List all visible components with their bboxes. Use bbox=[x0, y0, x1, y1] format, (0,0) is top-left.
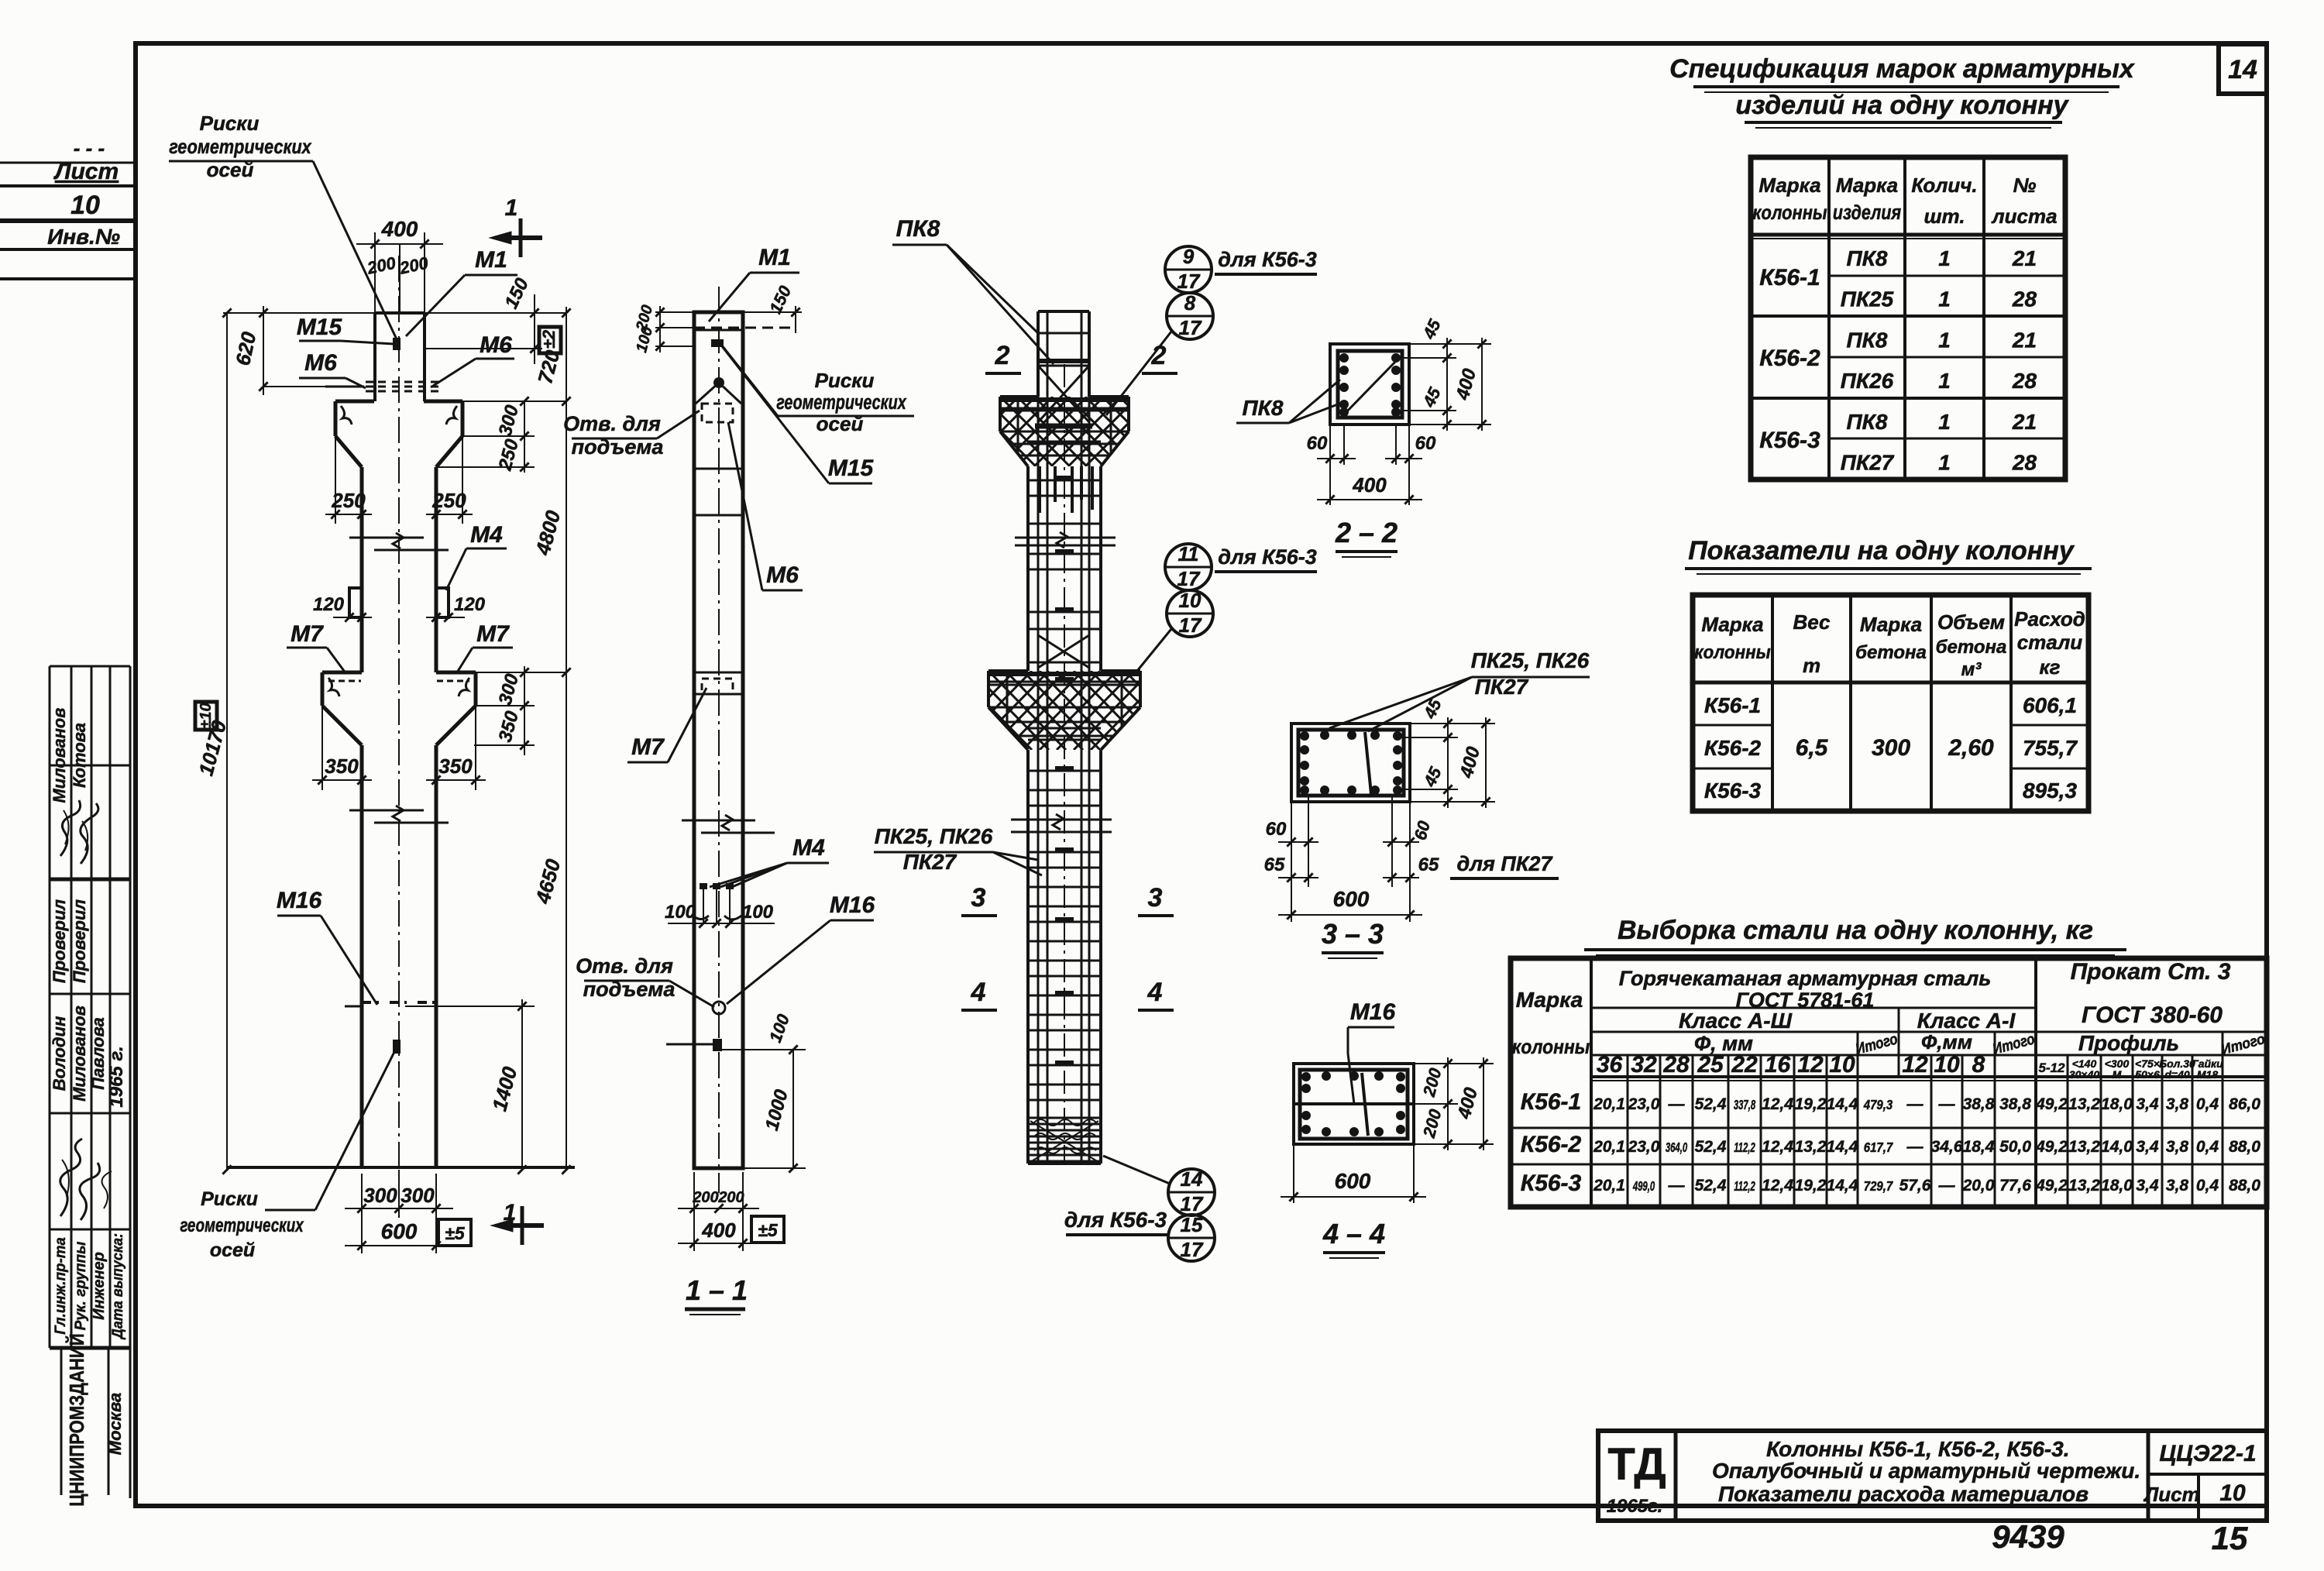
section 3-3 dim 45 top bbox=[1410, 723, 1458, 724]
svg-text:3,8: 3,8 bbox=[2166, 1138, 2189, 1156]
svg-text:М7: М7 bbox=[290, 621, 324, 647]
svg-text:14: 14 bbox=[2228, 55, 2257, 84]
svg-text:ПК26: ПК26 bbox=[1841, 369, 1894, 393]
svg-text:Москва: Москва bbox=[105, 1393, 125, 1455]
svg-text:20,1: 20,1 bbox=[1593, 1138, 1625, 1156]
svg-text:2,60: 2,60 bbox=[1948, 735, 1994, 761]
section 2-2 bar dots bbox=[1339, 353, 1349, 363]
dim 100 drawing2 bottom bbox=[722, 1049, 806, 1050]
svg-text:14,4: 14,4 bbox=[1827, 1177, 1858, 1195]
svg-text:М6: М6 bbox=[480, 332, 512, 358]
drawing3 centerline bbox=[1064, 364, 1065, 1164]
svg-text:300: 300 bbox=[1872, 735, 1910, 761]
svg-text:3,4: 3,4 bbox=[2136, 1177, 2159, 1195]
svg-text:±5: ±5 bbox=[758, 1220, 779, 1240]
drawing1 geometric axis dashes bbox=[325, 386, 364, 388]
svg-text:50×6: 50×6 bbox=[2135, 1068, 2160, 1081]
svg-text:Риски: Риски bbox=[815, 369, 875, 392]
section 2-2 dim 400 right bbox=[1409, 343, 1491, 345]
drawing3 neck X brace bbox=[1038, 366, 1089, 422]
section 4-4 dims 200 200 right bbox=[1414, 1063, 1458, 1064]
svg-text:ПК8: ПК8 bbox=[1847, 410, 1888, 434]
drawing1 top neck outline bbox=[375, 311, 425, 315]
svg-text:Расход: Расход bbox=[2014, 607, 2085, 631]
svg-text:Класс А-Ш: Класс А-Ш bbox=[1679, 1009, 1793, 1033]
svg-text:4: 4 bbox=[971, 978, 986, 1007]
svg-text:8: 8 bbox=[1972, 1052, 1985, 1078]
svg-text:49,2: 49,2 bbox=[2035, 1095, 2068, 1113]
table 1 specification grid bbox=[1751, 157, 2065, 480]
svg-text:32: 32 bbox=[1631, 1052, 1657, 1078]
svg-text:3,8: 3,8 bbox=[2166, 1177, 2189, 1195]
svg-text:Павлова: Павлова bbox=[88, 1017, 108, 1089]
svg-text:400: 400 bbox=[1352, 473, 1387, 497]
svg-text:1: 1 bbox=[1938, 328, 1951, 352]
svg-text:М6: М6 bbox=[766, 562, 799, 588]
svg-text:ПК25, ПК26: ПК25, ПК26 bbox=[1471, 648, 1590, 672]
svg-text:400: 400 bbox=[381, 217, 418, 241]
svg-text:364,0: 364,0 bbox=[1666, 1140, 1688, 1155]
svg-text:36: 36 bbox=[1597, 1052, 1623, 1078]
svg-text:112,2: 112,2 bbox=[1734, 1140, 1755, 1155]
svg-text:К56-3: К56-3 bbox=[1704, 779, 1762, 803]
drawing2 column outline bbox=[694, 312, 743, 1168]
svg-text:77,6: 77,6 bbox=[1999, 1177, 2031, 1195]
svg-text:—: — bbox=[1906, 1095, 1924, 1113]
dim 600 bottom bbox=[361, 1218, 363, 1253]
svg-text:стали: стали bbox=[2017, 631, 2083, 654]
svg-text:4: 4 bbox=[1147, 978, 1163, 1007]
svg-text:—: — bbox=[1668, 1177, 1686, 1195]
dim 150 right of head bbox=[425, 312, 542, 314]
svg-text:Лист: Лист bbox=[53, 159, 119, 184]
svg-text:листа: листа bbox=[1990, 205, 2057, 228]
section 3-3 dim 600 bottom bbox=[1291, 887, 1292, 922]
svg-text:8: 8 bbox=[1184, 291, 1196, 315]
svg-text:Марка: Марка bbox=[1516, 988, 1583, 1012]
svg-text:К56-1: К56-1 bbox=[1704, 693, 1761, 717]
ref circle 8-17 bbox=[1167, 293, 1213, 339]
svg-text:52,4: 52,4 bbox=[1695, 1177, 1727, 1195]
svg-text:17: 17 bbox=[1181, 1192, 1204, 1215]
svg-text:М: М bbox=[2113, 1068, 2122, 1081]
drawing2 riska mark bottom (filled) bbox=[713, 1039, 722, 1051]
svg-text:К56-1: К56-1 bbox=[1521, 1089, 1582, 1115]
drawing2 M4 tie marks bbox=[700, 883, 707, 889]
svg-text:1: 1 bbox=[1938, 451, 1951, 475]
drawing3 bottom dense mesh bbox=[1028, 1117, 1101, 1119]
dim 400 drawing2 bottom bbox=[693, 1216, 695, 1251]
svg-text:20,1: 20,1 bbox=[1593, 1177, 1625, 1195]
drawing1 bottom riska mark (filled) bbox=[393, 1040, 401, 1054]
svg-text:28: 28 bbox=[2012, 451, 2037, 475]
svg-text:2 – 2: 2 – 2 bbox=[1335, 517, 1397, 548]
svg-text:30×40: 30×40 bbox=[2069, 1068, 2100, 1081]
drawing2 M16 circle mark bbox=[713, 1002, 725, 1014]
svg-text:12,4: 12,4 bbox=[1762, 1138, 1793, 1156]
section 2-2 outer square bbox=[1330, 344, 1409, 425]
svg-text:изделий на одну колонну: изделий на одну колонну bbox=[1735, 91, 2069, 120]
svg-text:600: 600 bbox=[1333, 887, 1370, 911]
stamp signatures scrawl bbox=[60, 800, 81, 856]
drawing2 lower lifting hole dashed bbox=[702, 679, 733, 694]
section 2-2 dim 45 bottom bbox=[1402, 410, 1456, 411]
svg-text:12: 12 bbox=[1797, 1052, 1824, 1078]
svg-text:—: — bbox=[1906, 1138, 1924, 1156]
dim 100 200 drawing2 top left bbox=[655, 311, 694, 313]
svg-text:0,4: 0,4 bbox=[2196, 1095, 2219, 1113]
svg-text:606,1: 606,1 bbox=[2023, 693, 2077, 717]
svg-text:88,0: 88,0 bbox=[2229, 1138, 2260, 1156]
svg-text:300: 300 bbox=[401, 1184, 435, 1207]
svg-text:88,0: 88,0 bbox=[2229, 1177, 2260, 1195]
svg-text:Отв. для: Отв. для bbox=[563, 412, 661, 435]
svg-text:200: 200 bbox=[717, 1189, 744, 1206]
svg-text:Ф,мм: Ф,мм bbox=[1921, 1030, 1972, 1054]
svg-text:12,4: 12,4 bbox=[1762, 1177, 1793, 1195]
svg-text:К56-2: К56-2 bbox=[1759, 345, 1820, 371]
svg-text:Горячекатаная арматурная ста: Горячекатаная арматурная сталь bbox=[1619, 967, 1992, 990]
svg-text:337,8: 337,8 bbox=[1734, 1097, 1756, 1112]
svg-text:М18: М18 bbox=[2197, 1068, 2218, 1081]
svg-text:Показатели расхода материало: Показатели расхода материалов bbox=[1718, 1482, 2089, 1506]
svg-text:Инв.№: Инв.№ bbox=[47, 225, 120, 249]
svg-text:осей: осей bbox=[210, 1239, 255, 1261]
dim 1400 bottom bbox=[405, 1006, 535, 1007]
dim 350 pair lower console bbox=[321, 706, 323, 790]
svg-text:1: 1 bbox=[504, 1200, 517, 1226]
drawing2 riska mark top (filled) bbox=[711, 339, 724, 347]
section 2-2 stirrup bbox=[1338, 351, 1402, 418]
drawing3 reinforcement column outline bbox=[1038, 310, 1089, 313]
section 3-3 bar dots bbox=[1300, 731, 1309, 741]
svg-text:21: 21 bbox=[2012, 328, 2037, 352]
svg-text:18,4: 18,4 bbox=[1963, 1138, 1995, 1156]
svg-text:Дата выпуска:: Дата выпуска: bbox=[109, 1233, 126, 1340]
svg-text:10: 10 bbox=[2219, 1480, 2246, 1506]
svg-text:17: 17 bbox=[1179, 316, 1202, 339]
left stamp block grid bbox=[49, 666, 51, 1348]
drawing3 neck tie thick bbox=[1035, 424, 1092, 429]
drawing1 bottom riska dashes M16 bbox=[362, 1001, 379, 1004]
svg-text:Риски: Риски bbox=[201, 1188, 258, 1210]
svg-text:—: — bbox=[1938, 1177, 1956, 1195]
table 3 steel selection grid bbox=[1511, 958, 2267, 1207]
drawing2 riska dash line top bbox=[694, 327, 796, 329]
svg-text:ГОСТ 380-60: ГОСТ 380-60 bbox=[2082, 1002, 2223, 1028]
svg-text:М7: М7 bbox=[631, 734, 665, 760]
dim 300 350 right lower console bbox=[476, 672, 566, 673]
stamp signatures scrawl lower bbox=[60, 1139, 82, 1216]
section 4-4 middle rail bbox=[1294, 1102, 1414, 1105]
section 3-3 bent bar bbox=[1365, 732, 1371, 794]
svg-text:Марка: Марка bbox=[1701, 613, 1763, 636]
svg-text:86,0: 86,0 bbox=[2229, 1095, 2260, 1113]
svg-text:12,4: 12,4 bbox=[1762, 1095, 1793, 1113]
svg-text:Объем: Объем bbox=[1937, 610, 2005, 634]
stamp signatures column 1 bbox=[50, 708, 69, 803]
svg-text:1: 1 bbox=[1938, 246, 1951, 270]
svg-text:38,8: 38,8 bbox=[1963, 1095, 1995, 1113]
section 4-4 bar dots bbox=[1301, 1072, 1311, 1081]
drawing1 bottom edge bbox=[227, 1166, 575, 1169]
svg-text:м³: м³ bbox=[1961, 659, 1982, 680]
drawing3 tie hooks bbox=[1055, 476, 1074, 481]
section arrow 1 bottom bbox=[521, 1206, 524, 1245]
svg-text:колонны: колонны bbox=[1694, 641, 1771, 662]
svg-text:729,7: 729,7 bbox=[1864, 1178, 1893, 1195]
drawing3 console1 top chord thick bbox=[1000, 397, 1129, 402]
dim 300 console right bbox=[462, 435, 535, 437]
svg-text:112,2: 112,2 bbox=[1734, 1178, 1755, 1194]
svg-text:М16: М16 bbox=[830, 892, 875, 918]
drawing1 upper console corner curls bbox=[341, 406, 352, 425]
svg-text:ПК27: ПК27 bbox=[1475, 675, 1529, 699]
section 2-2 dim 45 top bbox=[1409, 343, 1456, 345]
svg-text:52,4: 52,4 bbox=[1695, 1095, 1727, 1113]
svg-text:34,6: 34,6 bbox=[1931, 1138, 1963, 1156]
table 2 indicators grid bbox=[1693, 595, 2089, 811]
svg-text:1965г.: 1965г. bbox=[1607, 1496, 1663, 1517]
svg-text:120: 120 bbox=[313, 594, 345, 615]
svg-text:Проверил: Проверил bbox=[50, 899, 69, 984]
svg-text:Профиль: Профиль bbox=[2078, 1031, 2179, 1055]
svg-text:14: 14 bbox=[1181, 1167, 1203, 1191]
drawing2 centerline bbox=[718, 287, 720, 1193]
section 4-4 dim 600 bottom bbox=[1293, 1144, 1294, 1203]
svg-text:28: 28 bbox=[2012, 287, 2037, 311]
sheet number box 14 bbox=[2219, 44, 2267, 94]
svg-text:ЦЦЭ22-1: ЦЦЭ22-1 bbox=[2159, 1441, 2256, 1466]
svg-text:Инженер: Инженер bbox=[91, 1252, 108, 1320]
svg-text:20,0: 20,0 bbox=[1962, 1177, 1995, 1195]
svg-text:Класс А-I: Класс А-I bbox=[1917, 1009, 2016, 1033]
dim 1000 drawing2 bottom bbox=[792, 1050, 794, 1168]
svg-text:19,2: 19,2 bbox=[1795, 1177, 1827, 1195]
section 4-4 outer rect bbox=[1294, 1064, 1414, 1144]
svg-text:d=40: d=40 bbox=[2164, 1068, 2190, 1081]
svg-text:350: 350 bbox=[438, 755, 473, 778]
svg-text:Колич.: Колич. bbox=[1911, 174, 1977, 197]
svg-text:1: 1 bbox=[1938, 287, 1951, 311]
svg-text:50,0: 50,0 bbox=[1999, 1138, 2031, 1156]
svg-text:бетона: бетона bbox=[1855, 642, 1927, 663]
ref circle 15-17 bbox=[1168, 1215, 1215, 1261]
drawing2 break lines bbox=[682, 820, 755, 822]
drawing3 X brace above console2 bbox=[1038, 635, 1089, 668]
drawing3 stirrup ties bbox=[1038, 332, 1089, 335]
svg-text:ПК8: ПК8 bbox=[1847, 328, 1888, 352]
svg-text:1: 1 bbox=[505, 195, 518, 221]
svg-text:Марка: Марка bbox=[1836, 174, 1898, 197]
svg-text:250: 250 bbox=[331, 489, 366, 512]
pm5 box drawing2 bbox=[751, 1216, 784, 1243]
svg-text:6,5: 6,5 bbox=[1796, 735, 1829, 761]
svg-text:№: № bbox=[2013, 174, 2037, 197]
svg-text:17: 17 bbox=[1177, 270, 1201, 293]
svg-text:3,4: 3,4 bbox=[2136, 1095, 2159, 1113]
dim 620 left bbox=[223, 312, 375, 314]
svg-text:Милованов: Милованов bbox=[50, 708, 69, 803]
svg-text:10: 10 bbox=[70, 191, 100, 220]
svg-text:250: 250 bbox=[431, 489, 466, 512]
ref circle 11-17 bbox=[1165, 544, 1212, 590]
svg-text:5-12: 5-12 bbox=[2038, 1061, 2065, 1075]
svg-text:колонны: колонны bbox=[1512, 1036, 1590, 1059]
svg-text:60: 60 bbox=[1307, 433, 1328, 454]
svg-text:617,7: 617,7 bbox=[1864, 1140, 1893, 1156]
svg-text:ПК27: ПК27 bbox=[903, 850, 957, 874]
svg-text:для К56-3: для К56-3 bbox=[1064, 1208, 1167, 1232]
svg-text:Марка: Марка bbox=[1860, 613, 1922, 636]
svg-text:300: 300 bbox=[363, 1184, 397, 1207]
leaders from label to section 3-3 bbox=[1329, 677, 1472, 728]
svg-text:13,2: 13,2 bbox=[2068, 1177, 2100, 1195]
drawing1 lower console bbox=[322, 671, 362, 675]
svg-text:49,2: 49,2 bbox=[2035, 1177, 2068, 1195]
dim 10170 overall left bbox=[226, 313, 228, 1170]
svg-text:19,2: 19,2 bbox=[1795, 1095, 1827, 1113]
svg-text:Отв. для: Отв. для bbox=[576, 954, 673, 978]
svg-text:ПК25, ПК26: ПК25, ПК26 bbox=[875, 824, 993, 848]
svg-text:21: 21 bbox=[2012, 246, 2037, 270]
svg-text:Колонны К56-1, К56-2, К56-3.: Колонны К56-1, К56-2, К56-3. bbox=[1766, 1437, 2070, 1461]
svg-text:1: 1 bbox=[1938, 410, 1951, 434]
svg-text:ПК8: ПК8 bbox=[1847, 246, 1888, 270]
svg-text:10: 10 bbox=[1179, 589, 1202, 612]
svg-text:14,4: 14,4 bbox=[1827, 1095, 1858, 1113]
svg-text:100: 100 bbox=[665, 902, 696, 923]
drawing3 console2 top chord thick bbox=[988, 672, 1140, 676]
svg-text:Лист: Лист bbox=[2143, 1483, 2199, 1506]
column K56 formwork elevation centerline bbox=[398, 256, 400, 1174]
dim 250 pair under console bbox=[335, 436, 336, 524]
svg-text:М15: М15 bbox=[828, 455, 875, 481]
svg-text:- - -: - - - bbox=[74, 136, 105, 160]
svg-text:М16: М16 bbox=[277, 888, 322, 913]
section 2-2 inner diagonal bbox=[1344, 358, 1399, 414]
svg-text:18,0: 18,0 bbox=[2101, 1095, 2133, 1113]
svg-text:колонны: колонны bbox=[1752, 201, 1827, 224]
svg-text:200: 200 bbox=[692, 1189, 718, 1206]
pm10 box left bbox=[195, 702, 217, 730]
svg-text:60: 60 bbox=[1415, 433, 1436, 454]
svg-text:65: 65 bbox=[1418, 854, 1439, 875]
drawing3 longitudinal bars bbox=[1047, 311, 1049, 1164]
svg-text:755,7: 755,7 bbox=[2023, 736, 2078, 760]
svg-text:57,6: 57,6 bbox=[1899, 1177, 1931, 1195]
svg-text:М15: М15 bbox=[297, 315, 343, 340]
svg-text:11: 11 bbox=[1178, 542, 1199, 565]
section 4-4 stirrup bbox=[1300, 1070, 1408, 1139]
section 2-2 dim 60 left bbox=[1329, 425, 1331, 465]
svg-text:28: 28 bbox=[1662, 1052, 1690, 1078]
pm2 box top right bbox=[539, 327, 561, 353]
svg-text:10: 10 bbox=[1934, 1052, 1960, 1078]
svg-text:изделия: изделия bbox=[1833, 201, 1901, 224]
leader from 8-17 to column bbox=[1106, 332, 1171, 415]
title block outline bbox=[1598, 1431, 2267, 1521]
svg-text:65: 65 bbox=[1264, 854, 1285, 875]
svg-text:кг: кг bbox=[2039, 655, 2060, 679]
svg-text:3: 3 bbox=[971, 883, 986, 913]
drawing1 lower console corner curls bbox=[328, 678, 339, 696]
svg-text:895,3: 895,3 bbox=[2023, 779, 2077, 803]
drawing2 lifting point dot bbox=[713, 377, 724, 388]
svg-text:14,0: 14,0 bbox=[2101, 1138, 2133, 1156]
drawing1 shaft lower segment bbox=[360, 745, 364, 1167]
svg-text:Марка: Марка bbox=[1758, 174, 1820, 197]
svg-text:М4: М4 bbox=[470, 522, 503, 548]
svg-text:К56-2: К56-2 bbox=[1704, 736, 1762, 760]
svg-text:52,4: 52,4 bbox=[1695, 1138, 1727, 1156]
drawing1 break lines upper bbox=[349, 537, 424, 539]
svg-text:Милованов: Милованов bbox=[70, 1006, 89, 1102]
svg-text:600: 600 bbox=[1335, 1169, 1371, 1193]
svg-text:3: 3 bbox=[1148, 883, 1163, 913]
svg-text:2: 2 bbox=[995, 341, 1010, 370]
section 3-3 dim 400 right bbox=[1410, 723, 1495, 724]
svg-text:М1: М1 bbox=[475, 247, 507, 273]
svg-text:20,1: 20,1 bbox=[1593, 1095, 1625, 1113]
svg-text:16: 16 bbox=[1765, 1052, 1791, 1078]
svg-text:13,2: 13,2 bbox=[1795, 1138, 1827, 1156]
drawing1 shaft upper segment bbox=[360, 467, 364, 672]
svg-text:М4: М4 bbox=[792, 835, 825, 861]
svg-text:13,2: 13,2 bbox=[2068, 1095, 2100, 1113]
svg-text:38,8: 38,8 bbox=[1999, 1095, 2031, 1113]
drawing1 riska mark M15 (filled) bbox=[393, 338, 401, 350]
svg-text:60: 60 bbox=[1266, 819, 1287, 840]
ref circle 10-17 bbox=[1167, 590, 1213, 637]
svg-text:100: 100 bbox=[742, 902, 774, 923]
svg-text:для К56-3: для К56-3 bbox=[1218, 248, 1317, 271]
svg-text:Прокат Ст. 3: Прокат Ст. 3 bbox=[2071, 959, 2231, 985]
stamp Proveril row bbox=[50, 899, 69, 984]
svg-text:геометрических: геометрических bbox=[169, 136, 312, 158]
drawing2 horizontal joint lines bbox=[694, 329, 743, 332]
svg-text:3,4: 3,4 bbox=[2136, 1138, 2159, 1156]
stamp names row bbox=[50, 1016, 69, 1091]
svg-text:350: 350 bbox=[325, 755, 359, 778]
svg-text:К56-3: К56-3 bbox=[1521, 1171, 1582, 1196]
svg-text:28: 28 bbox=[2012, 369, 2037, 393]
svg-text:479,3: 479,3 bbox=[1863, 1097, 1893, 1113]
svg-text:15: 15 bbox=[2212, 1520, 2248, 1556]
svg-text:Выборка стали на одну коло: Выборка стали на одну колонну, кг bbox=[1618, 916, 2093, 945]
svg-text:1: 1 bbox=[1938, 369, 1951, 393]
svg-text:шт.: шт. bbox=[1923, 205, 1965, 228]
svg-text:22: 22 bbox=[1731, 1052, 1758, 1078]
svg-text:14,4: 14,4 bbox=[1827, 1138, 1858, 1156]
drawing2 bottom riska line bbox=[666, 1043, 713, 1046]
svg-text:М7: М7 bbox=[476, 621, 510, 647]
svg-text:К56-2: К56-2 bbox=[1521, 1132, 1582, 1157]
svg-text:ПК8: ПК8 bbox=[896, 216, 940, 242]
svg-text:9439: 9439 bbox=[1992, 1518, 2064, 1555]
section 3-3 dims 60 65 right bbox=[1391, 796, 1393, 887]
svg-text:М6: М6 bbox=[304, 350, 337, 376]
svg-text:499,0: 499,0 bbox=[1632, 1178, 1655, 1194]
svg-text:±10: ±10 bbox=[198, 703, 215, 728]
svg-text:0,4: 0,4 bbox=[2196, 1138, 2219, 1156]
svg-text:400: 400 bbox=[701, 1219, 736, 1242]
section 3-3 dims 60 65 left bbox=[1291, 802, 1292, 887]
svg-text:120: 120 bbox=[454, 594, 486, 615]
leader from 10-17 to column bbox=[1137, 629, 1171, 671]
svg-text:для ПК27: для ПК27 bbox=[1457, 852, 1554, 875]
section 3-3 outer rect bbox=[1291, 724, 1410, 802]
